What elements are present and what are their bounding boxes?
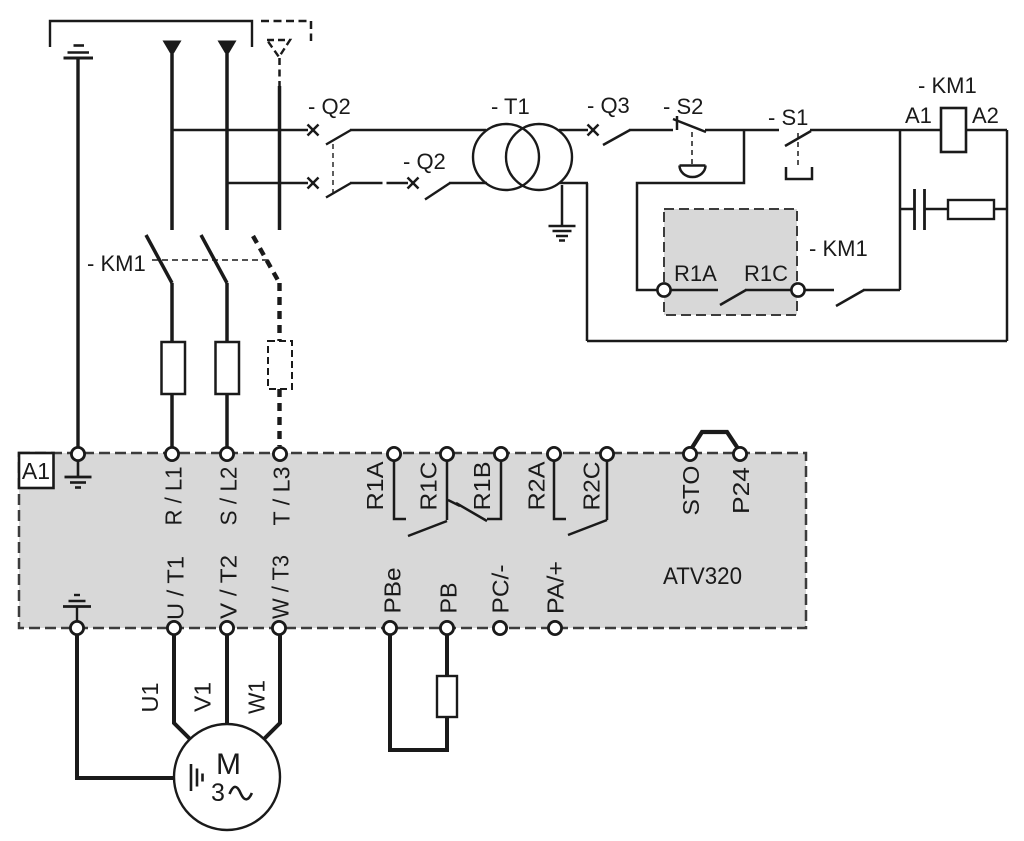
wire cap to resistor <box>925 208 948 211</box>
wire A2 to right rail <box>966 129 1007 132</box>
ground PE (inverted earth under bracket) <box>64 46 94 59</box>
drive box ATV320 <box>19 453 806 628</box>
KM1 linkage dashed <box>152 259 268 261</box>
svg-text:R2C: R2C <box>579 462 605 511</box>
svg-text:U / T1: U / T1 <box>163 556 189 620</box>
wire R1C to KM1 aux <box>805 289 834 292</box>
wire T1 to Q3 <box>559 129 588 132</box>
svg-text:V1: V1 <box>190 682 216 712</box>
wire Q2 to T1 <box>350 129 486 131</box>
terminal PBe <box>383 621 396 634</box>
node L2 arrow <box>218 41 237 57</box>
terminal R2A <box>547 447 560 460</box>
contact R1B line <box>487 461 501 519</box>
wire PB to resistor <box>445 635 449 677</box>
pushbutton S1 blade <box>785 131 811 146</box>
wire bottom rail <box>587 340 1007 343</box>
node L1 arrow <box>163 41 182 57</box>
svg-text:STO: STO <box>678 466 704 516</box>
ground T1 <box>549 226 576 241</box>
terminal U/T1 <box>167 621 180 634</box>
S2 mushroom head <box>680 166 706 178</box>
contact R2C line <box>606 461 609 520</box>
wire pole3 to fuse dashed <box>277 283 281 342</box>
wire L1 tap to Q2 <box>172 129 308 131</box>
svg-text:R / L1: R / L1 <box>161 467 187 526</box>
node L3 dashed entry box <box>261 21 311 41</box>
contact R2A line <box>554 461 566 519</box>
resistor R snubber <box>948 200 994 219</box>
svg-text:- S1: - S1 <box>768 105 808 130</box>
wire junction down <box>637 130 744 290</box>
contactor KM1 pole 2 blade <box>201 235 227 283</box>
S1 latch symbol <box>786 167 812 179</box>
terminal PE bottom <box>70 621 83 634</box>
wire S2 to junction <box>705 129 779 132</box>
svg-text:ATV320: ATV320 <box>663 563 742 590</box>
wire L1 <box>170 54 174 230</box>
capacitor C1 <box>915 189 925 230</box>
terminal R2C <box>600 447 613 460</box>
wire fuse2 to S/L2 <box>225 394 229 448</box>
wire Q2b to T1 <box>449 182 487 184</box>
breaker Q3 X <box>588 125 599 136</box>
relay box R1 gray <box>664 209 797 315</box>
breaker Q2 pole1 blade <box>326 130 351 145</box>
wire R1A to contact <box>671 289 718 292</box>
label box A1 <box>19 453 54 488</box>
node R1A circle <box>657 283 670 296</box>
wire T1 secondary bottom <box>559 182 588 185</box>
svg-text:A2: A2 <box>972 103 999 128</box>
svg-text:- KM1: - KM1 <box>918 73 977 98</box>
motor tilde <box>230 787 252 800</box>
svg-text:U1: U1 <box>137 683 163 713</box>
svg-text:PBe: PBe <box>380 568 406 614</box>
transformer T1 secondary <box>506 124 572 190</box>
wire right rail <box>1006 130 1009 341</box>
svg-text:R1A: R1A <box>674 261 717 286</box>
svg-text:PA/+: PA/+ <box>543 561 569 614</box>
terminal S/L2 <box>220 447 233 460</box>
resistor braking <box>437 676 457 717</box>
svg-text:- S2: - S2 <box>663 94 703 119</box>
svg-text:P24: P24 <box>728 467 754 514</box>
svg-text:- T1: - T1 <box>491 94 530 119</box>
wire fuse1 to R/L1 <box>170 394 174 448</box>
wire T1 center tap <box>561 185 564 226</box>
wire PE to motor <box>77 635 189 779</box>
node R1C circle <box>791 283 804 296</box>
motor chassis ground <box>191 764 203 791</box>
wire W/T3 to motor <box>264 635 280 740</box>
pushbutton S2 blade <box>673 119 706 132</box>
svg-text:- Q2: - Q2 <box>308 94 351 119</box>
wire pole1 to fuse <box>170 283 174 342</box>
breaker Q3 blade <box>603 130 630 145</box>
ground PE terminal symbol <box>65 461 92 488</box>
terminal PB <box>440 621 453 634</box>
breaker Q2 pole1 X <box>308 125 319 136</box>
breaker Q2 pole2 X <box>308 178 319 189</box>
svg-text:- Q3: - Q3 <box>587 93 630 118</box>
contactor KM1 pole 3 blade dashed <box>253 236 280 283</box>
wire L2 <box>225 54 229 230</box>
wire Q3 to S2 <box>629 129 673 132</box>
wire latch rail up <box>899 130 902 290</box>
wire resistor to rail <box>994 208 1007 211</box>
fuse F1 <box>162 342 186 394</box>
fuse F2 <box>216 342 240 394</box>
terminal PA/+ <box>548 621 561 634</box>
svg-text:R1C: R1C <box>416 462 442 511</box>
wire L3 dashed <box>278 58 281 88</box>
terminal R1A <box>387 447 400 460</box>
svg-text:W1: W1 <box>244 680 270 714</box>
wire Q2 pole2 to Q2b <box>350 182 408 184</box>
svg-text:R2A: R2A <box>524 461 550 511</box>
contact KM1 aux blade <box>836 290 864 306</box>
supply bracket <box>50 21 252 47</box>
svg-text:M: M <box>216 748 241 781</box>
wire U/T1 to motor <box>174 635 190 740</box>
svg-text:PC/-: PC/- <box>488 565 514 614</box>
wire PE vertical <box>76 58 79 448</box>
svg-text:- KM1: - KM1 <box>87 251 146 276</box>
terminal P24 <box>733 447 746 460</box>
svg-text:3: 3 <box>211 779 225 807</box>
terminal STO <box>683 447 696 460</box>
ground PE bottom symbol <box>63 595 91 622</box>
transformer T1 primary <box>473 124 539 190</box>
wire left rail <box>586 183 589 341</box>
fuse F3 dashed <box>268 341 292 389</box>
node L3 dashed arrow <box>267 40 290 57</box>
wire pole2 to fuse <box>225 283 229 342</box>
wire L2 tap to Q2 <box>227 182 308 184</box>
wire L3 solid <box>278 86 282 230</box>
svg-text:R1A: R1A <box>362 461 388 511</box>
terminal PC/- <box>493 621 506 634</box>
svg-text:R1C: R1C <box>744 261 788 286</box>
wire S1 to A1 <box>810 129 941 132</box>
Q2 linkage dashed <box>332 144 334 196</box>
svg-text:V / T2: V / T2 <box>216 555 242 619</box>
terminal R1B <box>494 447 507 460</box>
S2 actuator dashed <box>691 132 693 164</box>
svg-text:W / T3: W / T3 <box>268 555 294 619</box>
wire fuse3 to T/L3 dashed <box>277 389 281 446</box>
svg-text:- KM1: - KM1 <box>809 236 868 261</box>
contact R1C line <box>446 461 449 520</box>
wire V/T2 to motor <box>225 635 229 725</box>
terminal V/T2 <box>220 621 233 634</box>
svg-text:- Q2: - Q2 <box>403 149 446 174</box>
contactor KM1 pole 1 blade <box>146 235 172 283</box>
wire contact to R1C <box>745 289 791 292</box>
terminal W/T3 <box>272 621 285 634</box>
terminal R/L1 <box>165 447 178 460</box>
contact R2A blade <box>568 520 607 535</box>
terminal R1C <box>440 447 453 460</box>
wire KM1 aux to rail <box>863 289 900 292</box>
breaker Q2 pole2 blade <box>326 183 351 198</box>
terminal T/L3 <box>273 447 286 460</box>
svg-text:A1: A1 <box>905 103 932 128</box>
terminal PE top <box>71 447 84 460</box>
pushbutton S2 NC stub <box>676 116 679 130</box>
svg-text:S / L2: S / L2 <box>216 467 242 526</box>
wire PBe branch <box>390 635 449 751</box>
contact R1A blade <box>408 521 447 536</box>
motor M circle <box>174 724 280 830</box>
svg-text:A1: A1 <box>22 458 50 484</box>
wire resistor down <box>445 717 449 752</box>
contact R1B NC blade <box>448 500 487 521</box>
breaker Q2b blade <box>425 183 450 200</box>
svg-text:PB: PB <box>436 583 462 614</box>
jumper STO-P24 <box>692 432 739 449</box>
contact R1A-R1C blade <box>720 290 746 305</box>
wire RC branch left <box>900 208 914 211</box>
breaker Q2b X <box>408 178 419 189</box>
svg-text:T / L3: T / L3 <box>269 467 295 526</box>
svg-text:R1B: R1B <box>469 462 495 511</box>
contactor coil KM1 <box>941 108 966 152</box>
contact R1A line <box>394 461 406 519</box>
S1 actuator dashed <box>797 133 799 168</box>
